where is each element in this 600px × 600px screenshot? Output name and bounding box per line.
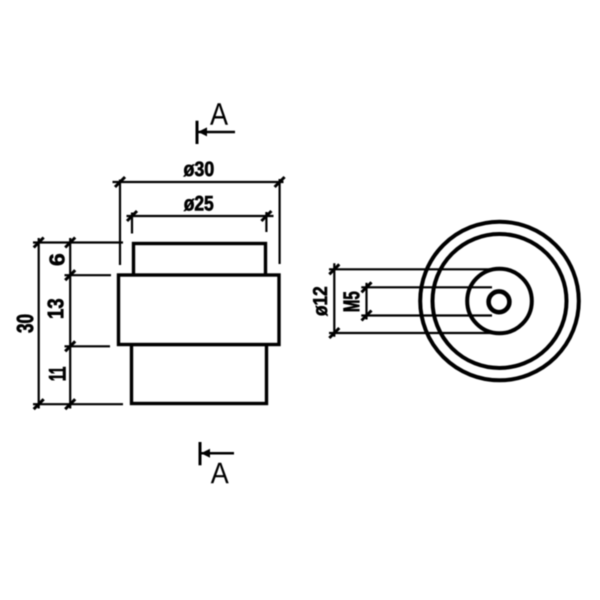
- front view: middle body (Ø30, h=13): [119, 275, 280, 345]
- dimension Ø30: right extension line: [279, 179, 281, 264]
- chain tick at 6/13 boundary: [65, 270, 75, 280]
- section marker top: view direction line: [197, 131, 235, 134]
- chain tick at part bottom: [65, 399, 75, 409]
- chain tick at 13/11 boundary: [65, 341, 75, 351]
- dimension M5: dimension line: [365, 283, 367, 320]
- side view: outer circle Ø30: [420, 222, 579, 381]
- left chain: extension line at part bottom: [33, 403, 123, 405]
- dimension Ø12: value label (rotated): [313, 287, 328, 316]
- section marker top: letter A: [210, 103, 228, 124]
- front view: bottom section (h=11): [132, 345, 267, 404]
- left chain: extension line at 6/13 boundary: [65, 274, 112, 276]
- section marker bottom: letter A: [211, 463, 229, 484]
- side view: circle Ø25: [433, 234, 567, 368]
- dimension Ø25: dimension line: [127, 215, 274, 217]
- dimension Ø12: top extension line: [329, 268, 492, 270]
- dimension Ø30: dimension line: [113, 181, 284, 183]
- chain tick at part top: [65, 238, 75, 248]
- side view: boss circle Ø12: [467, 269, 532, 334]
- section marker top: arrowhead: [198, 127, 207, 136]
- dimension M5: bottom oblique tick: [362, 311, 372, 321]
- dimension M5: bottom extension line: [361, 314, 492, 316]
- dimension Ø25: left extension line: [131, 213, 133, 234]
- dimension Ø30: left oblique tick: [115, 177, 125, 187]
- dimension Ø12: dimension line: [333, 263, 335, 337]
- dimension Ø25: value label: [184, 196, 213, 211]
- dimension Ø12: top oblique tick: [329, 264, 339, 274]
- left chain: extension line at part top: [33, 241, 123, 243]
- dimension 13: value label (rotated): [48, 299, 64, 318]
- dimension Ø30: right oblique tick: [275, 177, 285, 187]
- dimension Ø25: left oblique tick: [127, 211, 137, 221]
- section marker top: cutting plane tick: [196, 121, 199, 144]
- side view: tapped hole M5: [489, 291, 510, 312]
- dimension Ø12: bottom oblique tick: [329, 328, 339, 338]
- section marker bottom: arrowhead: [201, 449, 210, 458]
- dimension Ø30: left extension line: [119, 180, 121, 266]
- dimension 30: top oblique tick: [34, 238, 44, 248]
- dimension 30: bottom oblique tick: [34, 399, 44, 409]
- left chain: extension line at 13/11 boundary: [65, 345, 111, 347]
- dimension 30 overall: dimension line: [38, 238, 40, 409]
- dimension Ø25: right oblique tick: [261, 211, 271, 221]
- dimension Ø30: value label: [184, 162, 214, 177]
- dimension M5: top extension line: [361, 286, 492, 288]
- dimension 11: value label (rotated): [49, 367, 66, 380]
- front view: upper flange (Ø25, h=6): [134, 244, 266, 276]
- chain dimension line 6/13/11: [69, 238, 71, 409]
- dimension Ø12: bottom extension line: [329, 332, 492, 334]
- dimension Ø25: right extension line: [265, 212, 267, 232]
- dimension M5: value label (rotated): [344, 292, 360, 311]
- section marker bottom: view direction line: [200, 452, 234, 455]
- dimension 6: value label (rotated): [50, 254, 65, 265]
- section marker bottom: cutting plane tick: [199, 442, 202, 465]
- dimension 30: value label (rotated): [17, 315, 34, 333]
- dimension M5: top oblique tick: [362, 282, 372, 292]
